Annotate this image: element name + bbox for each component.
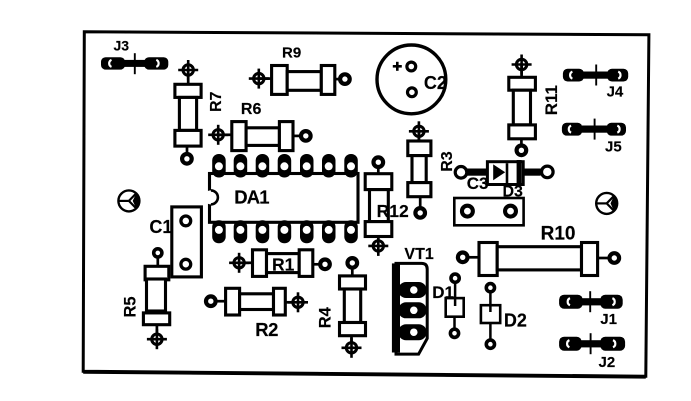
pad B of J3 <box>144 57 168 69</box>
hole mark pad A of J3 <box>109 60 111 67</box>
pad 2 of R3 <box>415 208 425 218</box>
lead of R4 <box>351 267 354 277</box>
pad A of J3 <box>101 57 125 69</box>
fiducial left <box>118 190 139 211</box>
end cap of R7 <box>175 130 201 146</box>
end cap of R3 <box>408 183 431 197</box>
pad B of J5 <box>607 123 626 136</box>
svg-text:C1: C1 <box>149 217 172 237</box>
pad 1 of R2 <box>206 296 216 306</box>
pad 2 of R5 <box>147 329 167 349</box>
lead of R9 <box>259 77 272 80</box>
diode D1 <box>432 274 464 337</box>
pad 1 of R4 <box>348 258 358 268</box>
pad B of J4 <box>607 69 628 82</box>
IC DA1 <box>204 154 358 243</box>
pad 2 of C2 <box>408 88 417 97</box>
end cap of R4 <box>340 276 366 289</box>
diode D3 <box>455 160 553 201</box>
centre tick of J5 <box>594 119 596 140</box>
lead of R6 <box>293 135 301 138</box>
end cap of R7 <box>175 84 201 97</box>
pad 2 of R6 <box>301 131 311 141</box>
polarity mark of C2 <box>393 65 402 68</box>
lead of R2 <box>285 301 292 304</box>
fiducial right <box>596 193 617 214</box>
lead of D2 <box>489 291 492 312</box>
hole mark pad A of J4 <box>570 72 572 79</box>
pad 3 of VT1 <box>398 324 427 340</box>
lead of R12 <box>377 237 380 246</box>
pad 1 of VT1 <box>398 282 427 298</box>
pad 1 of R5 <box>154 249 162 257</box>
end cap of R3 <box>408 141 431 156</box>
transistor VT1 <box>392 246 434 354</box>
svg-text:J1: J1 <box>600 311 617 328</box>
body of R3 <box>412 156 426 183</box>
pad 1 of R1 <box>229 253 249 273</box>
lead of D1 <box>454 299 457 306</box>
lead of R2 <box>215 300 226 303</box>
pad 1 of R7 <box>178 60 198 80</box>
pad 2 of C3 <box>505 206 516 217</box>
body of R4 <box>344 289 360 323</box>
pad 1 of R10 <box>458 252 468 262</box>
hole mark pad A of J1 <box>568 298 570 305</box>
hole of pad 1 of VT1 <box>410 286 418 294</box>
body of R9 <box>287 72 321 91</box>
pad 2 of R4 <box>342 338 362 358</box>
body outline of C3 <box>454 198 523 225</box>
end cap of R6 <box>232 122 246 151</box>
lead of R4 <box>350 336 353 342</box>
body outline of C1 <box>172 207 202 277</box>
end cap of R5 <box>145 266 169 280</box>
svg-text:J3: J3 <box>114 38 130 54</box>
anode triangle of D3 <box>493 164 505 180</box>
svg-text:R12: R12 <box>377 201 409 221</box>
centre tick of J1 <box>589 291 591 312</box>
lead of D2 <box>489 323 492 340</box>
pad 2 of R12 <box>368 236 388 256</box>
hole mark pad B of J1 <box>612 298 614 305</box>
resistor R6 <box>208 101 310 151</box>
lead of D1 <box>454 282 457 306</box>
heatsink tab of VT1 <box>392 263 400 352</box>
pad 1 of R11 <box>512 55 532 75</box>
jumper J3 <box>101 38 168 75</box>
end cap of R10 <box>479 243 497 276</box>
resistor R12 <box>365 157 409 256</box>
lead of R1 <box>313 263 319 266</box>
centre tick of J2 <box>590 333 592 354</box>
svg-text:J4: J4 <box>607 84 624 101</box>
pad 2 of R2 <box>288 292 308 312</box>
svg-text:R2: R2 <box>255 319 278 340</box>
pad A of J4 <box>563 69 584 82</box>
pad 2 of R7 <box>182 154 192 164</box>
lead of R7 <box>186 146 189 154</box>
capacitor C2 <box>377 45 447 114</box>
pad A of J5 <box>562 123 582 136</box>
pad B of J2 <box>600 337 625 351</box>
body of D3 <box>487 162 523 185</box>
diode D2 <box>481 284 527 349</box>
body of R2 <box>240 294 274 310</box>
body of R6 <box>246 128 279 146</box>
jumper J5 <box>562 119 626 156</box>
hole mark pad A of J2 <box>567 340 569 347</box>
lead of D2 <box>489 306 492 312</box>
capacitor C3 <box>454 174 523 225</box>
end cap of R12 <box>365 222 392 237</box>
body of R10 <box>497 247 581 270</box>
body of DA1 <box>210 174 359 223</box>
pad 1 of R6 <box>208 125 228 145</box>
body of R11 <box>513 90 530 125</box>
end cap of R9 <box>272 66 288 95</box>
end cap of R2 <box>274 288 286 315</box>
pad 1 of D1 <box>451 274 459 282</box>
jumper J1 <box>559 291 623 328</box>
lead of R10 <box>467 256 480 259</box>
svg-text:R4: R4 <box>317 306 335 328</box>
hole mark pad B of J3 <box>156 60 158 67</box>
centre tick of J3 <box>134 53 136 74</box>
centre tick of J4 <box>595 65 597 86</box>
lead of R6 <box>218 133 232 136</box>
pad 2 of D2 <box>486 340 494 348</box>
jumper J4 <box>563 65 628 101</box>
lead of D1 <box>453 317 456 329</box>
resistor R7 <box>175 60 225 164</box>
end cap of R1 <box>253 250 267 277</box>
pad 2 of C1 <box>181 259 191 269</box>
hole of pad 3 of VT1 <box>410 328 418 336</box>
resistor R11 <box>509 55 561 156</box>
bar of J3 <box>121 60 147 67</box>
lead of R3 <box>418 131 421 142</box>
pad 1 of D2 <box>486 284 494 292</box>
body of D2 <box>481 305 500 323</box>
resistor R3 <box>408 121 456 217</box>
cathode bar of D3 <box>506 163 509 183</box>
polarity mark of C2 <box>396 62 399 71</box>
resistor R5 <box>122 249 170 349</box>
body of D1 <box>446 298 464 317</box>
svg-text:R11: R11 <box>542 85 561 115</box>
resistor R1 <box>229 250 330 277</box>
bar of J5 <box>582 126 607 133</box>
hole mark pad B of J5 <box>617 126 619 133</box>
body of R5 <box>147 279 166 311</box>
capacitor C1 <box>149 207 201 277</box>
pad 2 of VT1 <box>398 302 427 318</box>
resistor R4 <box>317 258 366 358</box>
lead of R1 <box>239 261 253 264</box>
resistor R10 <box>458 224 619 276</box>
body of R1 <box>267 254 300 273</box>
pad 1 of D3 <box>455 167 467 179</box>
case outline of C2 <box>377 45 446 114</box>
resistor R9 <box>249 45 350 95</box>
svg-text:R6: R6 <box>241 101 262 118</box>
end cap of R4 <box>340 323 366 336</box>
end cap of R11 <box>509 125 536 139</box>
resistor R2 <box>206 288 308 340</box>
lead of R7 <box>187 70 190 86</box>
end cap of R5 <box>143 313 169 325</box>
svg-text:J5: J5 <box>605 139 622 156</box>
pad A of J1 <box>559 295 583 309</box>
lead of R5 <box>156 325 159 334</box>
pad 2 of R1 <box>320 260 330 270</box>
svg-text:R5: R5 <box>122 296 140 317</box>
pad 1 of R3 <box>409 121 429 141</box>
bar of J4 <box>583 72 609 79</box>
pin-1 notch arc of DA1 <box>211 190 218 204</box>
svg-text:J2: J2 <box>599 354 616 371</box>
cathode band of D3 <box>517 160 522 186</box>
pins 8-14 of DA1 <box>212 220 358 243</box>
pad 1 of R12 <box>374 157 384 167</box>
pad 2 of R11 <box>517 146 527 156</box>
pin-1 notch of DA1 <box>204 190 218 204</box>
lead of R11 <box>520 65 523 80</box>
pad 2 of D1 <box>450 329 458 337</box>
end cap of R12 <box>365 174 392 190</box>
pad 2 of R9 <box>340 74 350 84</box>
body of R12 <box>370 190 389 222</box>
board outline <box>83 32 649 376</box>
svg-text:D2: D2 <box>504 311 527 331</box>
bar of J2 <box>580 340 601 347</box>
svg-text:DA1: DA1 <box>234 186 269 207</box>
end cap of R1 <box>299 250 313 277</box>
svg-text:C2: C2 <box>424 73 447 93</box>
pad 2 of R10 <box>610 253 620 263</box>
svg-text:C3: C3 <box>467 174 489 193</box>
svg-text:R3: R3 <box>439 151 456 172</box>
end cap of R11 <box>509 77 536 90</box>
end cap of R6 <box>279 122 293 151</box>
lead of R11 <box>520 139 523 146</box>
pad 2 of D3 <box>542 166 554 178</box>
svg-text:R9: R9 <box>282 45 301 62</box>
end cap of R10 <box>582 243 598 276</box>
hole of pad 2 of VT1 <box>410 307 418 315</box>
bar of J1 <box>581 298 602 305</box>
lead of R10 <box>598 257 610 260</box>
lead of R9 <box>335 78 340 81</box>
pad A of J2 <box>559 337 582 351</box>
end cap of R9 <box>321 66 335 95</box>
body of R7 <box>179 97 196 130</box>
pins 1-7 of DA1 <box>212 154 358 178</box>
pad 1 of C2 <box>407 62 416 71</box>
svg-text:VT1: VT1 <box>404 246 433 263</box>
pad 1 of R9 <box>249 69 269 89</box>
end cap of R2 <box>226 288 240 315</box>
lead of R5 <box>156 256 159 267</box>
pad 1 of C1 <box>181 216 191 226</box>
lead of R12 <box>377 166 380 175</box>
body outline of VT1 <box>396 263 427 354</box>
lead of R3 <box>419 197 422 208</box>
svg-text:R1: R1 <box>272 255 295 275</box>
jumper J2 <box>559 333 625 371</box>
svg-text:D1: D1 <box>432 283 454 302</box>
pad 1 of C3 <box>462 206 473 217</box>
svg-text:R7: R7 <box>208 91 225 112</box>
svg-text:R10: R10 <box>541 224 576 245</box>
lead of D3 <box>523 169 541 176</box>
hole mark pad B of J2 <box>613 340 615 347</box>
hole mark pad A of J5 <box>569 126 571 133</box>
hole mark pad B of J4 <box>618 72 620 79</box>
lead of D3 <box>466 169 488 176</box>
pad B of J1 <box>600 295 622 309</box>
